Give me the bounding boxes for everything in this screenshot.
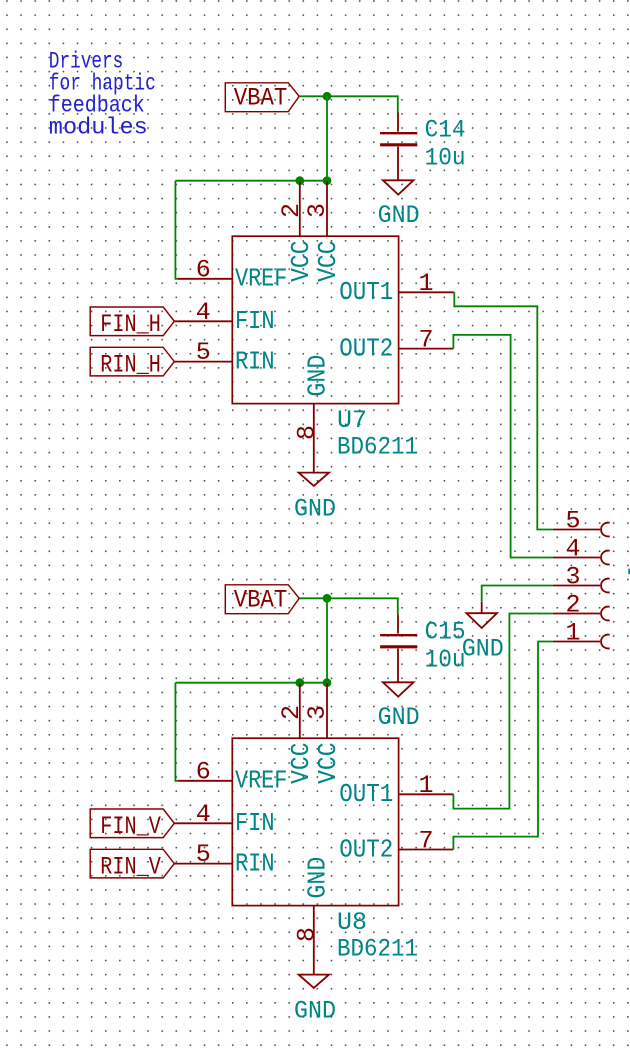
wire horizontal VCC feed row (top)	[175, 180, 327, 182]
svg-text:4: 4	[196, 800, 211, 829]
ground symbol below C15	[378, 682, 420, 732]
node junction pin2 feed (bottom)	[295, 678, 304, 687]
svg-text:U7: U7	[337, 406, 367, 435]
pin 6 VREF (bottom IC)	[178, 757, 287, 795]
connector pin 1	[553, 619, 610, 649]
capacitor C15	[380, 615, 466, 683]
svg-text:FIN: FIN	[235, 808, 275, 838]
svg-text:10u: 10u	[425, 645, 466, 674]
svg-text:OUT1: OUT1	[339, 779, 393, 809]
ground symbol for connector pin 3	[462, 602, 504, 664]
pin 3 VCC (bottom IC)	[303, 684, 343, 784]
svg-text:8: 8	[292, 425, 321, 440]
wire VBAT junction down to pin3 row (bottom)	[326, 598, 328, 682]
wire U8 OUT1 to connector pin 2	[453, 614, 553, 809]
svg-text:5: 5	[565, 507, 580, 536]
power label VBAT (top)	[225, 83, 299, 113]
node junction pin2 feed (top)	[295, 176, 304, 185]
svg-text:GND: GND	[303, 857, 333, 899]
pin 7 OUT2 (top IC)	[339, 325, 453, 363]
ground symbol below U7	[294, 473, 336, 524]
wire VBAT to C14	[299, 96, 398, 112]
svg-text:RIN: RIN	[235, 848, 275, 878]
wire U7 OUT1 to connector pin 5	[454, 292, 553, 529]
wire connector pin 3 to ground	[482, 586, 553, 602]
svg-text:C14: C14	[425, 116, 466, 145]
pin 4 FIN (top IC)	[174, 298, 274, 336]
connector pin 3	[553, 563, 610, 593]
svg-text:2: 2	[277, 203, 306, 218]
svg-text:FIN_V: FIN_V	[100, 812, 161, 841]
svg-text:3: 3	[303, 203, 332, 218]
svg-text:U8: U8	[337, 908, 367, 937]
wire VBAT junction down to pin3 row	[326, 96, 328, 180]
svg-text:3: 3	[303, 705, 332, 720]
svg-text:GND: GND	[294, 997, 336, 1026]
svg-text:2: 2	[565, 591, 580, 620]
connector pin 4	[553, 535, 610, 565]
svg-text:C15: C15	[425, 618, 466, 647]
svg-text:OUT1: OUT1	[339, 277, 393, 307]
svg-text:VREF: VREF	[235, 766, 287, 796]
pin 8 GND (bottom IC)	[292, 857, 332, 975]
svg-text:FIN_H: FIN_H	[100, 310, 161, 339]
ground symbol below C14	[378, 180, 420, 230]
hierarchical label RIN_H	[90, 347, 174, 379]
svg-text:RIN_V: RIN_V	[100, 852, 161, 881]
svg-text:VCC: VCC	[313, 241, 343, 282]
wire U7 OUT2 to connector pin 4	[453, 335, 553, 558]
wire VREF loop (bottom)	[175, 683, 178, 781]
note text "Drivers for haptic feedback modules"	[49, 49, 156, 142]
svg-text:5: 5	[196, 840, 211, 869]
svg-text:VCC: VCC	[286, 241, 316, 282]
svg-text:GND: GND	[462, 635, 504, 664]
svg-text:VBAT: VBAT	[234, 84, 287, 113]
svg-text:7: 7	[418, 826, 433, 855]
op-amp U8 BD6211 body	[232, 738, 418, 963]
wire horizontal VCC feed row (bottom)	[175, 682, 327, 684]
svg-text:3: 3	[565, 563, 580, 592]
svg-text:OUT2: OUT2	[339, 835, 393, 865]
hierarchical label FIN_V	[90, 809, 174, 841]
svg-text:GND: GND	[378, 703, 420, 732]
wire VBAT to C15	[299, 598, 398, 614]
pin 8 GND (top IC)	[292, 355, 332, 473]
svg-text:8: 8	[292, 927, 321, 942]
svg-text:FIN: FIN	[235, 306, 275, 336]
connector label fragment at right edge	[628, 569, 630, 575]
svg-text:OUT2: OUT2	[339, 334, 393, 364]
svg-text:RIN: RIN	[235, 346, 275, 376]
pin 5 RIN (bottom IC)	[174, 840, 274, 878]
pin 6 VREF (top IC)	[178, 255, 287, 293]
svg-text:BD6211: BD6211	[337, 432, 418, 461]
connector pin 5	[553, 507, 610, 537]
svg-text:GND: GND	[303, 355, 333, 397]
svg-text:6: 6	[196, 255, 211, 284]
svg-text:VCC: VCC	[286, 743, 316, 784]
node junction pin3 feed (top)	[323, 176, 332, 185]
node junction at VBAT (top)	[323, 92, 332, 101]
svg-text:4: 4	[196, 298, 211, 327]
node junction at VBAT (bottom)	[323, 594, 332, 603]
svg-text:GND: GND	[378, 201, 420, 230]
svg-text:1: 1	[565, 619, 580, 648]
pin 3 VCC (top IC)	[303, 182, 343, 282]
pin 1 OUT1 (top IC)	[339, 269, 454, 307]
hierarchical label FIN_H	[90, 307, 174, 339]
svg-text:RIN_H: RIN_H	[100, 350, 161, 379]
svg-text:1: 1	[418, 269, 433, 298]
power label VBAT (bottom)	[225, 585, 299, 615]
pin 7 OUT2 (bottom IC)	[339, 826, 453, 864]
svg-text:7: 7	[418, 325, 433, 354]
svg-text:VREF: VREF	[235, 264, 287, 294]
svg-text:1: 1	[418, 771, 433, 800]
svg-text:5: 5	[196, 338, 211, 367]
connector pin 2	[553, 591, 610, 621]
svg-text:modules: modules	[49, 115, 148, 142]
node junction pin3 feed (bottom)	[323, 678, 332, 687]
pin 4 FIN (bottom IC)	[174, 800, 274, 838]
svg-text:GND: GND	[294, 495, 336, 524]
pin 1 OUT1 (bottom IC)	[339, 771, 453, 809]
svg-text:10u: 10u	[425, 143, 466, 172]
ground symbol below U8	[294, 975, 336, 1026]
pin 2 VCC (bottom IC)	[277, 684, 316, 784]
capacitor C14	[380, 113, 466, 181]
svg-text:4: 4	[565, 535, 580, 564]
pin 5 RIN (top IC)	[174, 338, 274, 376]
op-amp U7 BD6211 body	[232, 236, 418, 461]
svg-text:VCC: VCC	[313, 743, 343, 784]
hierarchical label RIN_V	[90, 849, 174, 881]
svg-text:2: 2	[277, 705, 306, 720]
svg-text:VBAT: VBAT	[234, 586, 287, 615]
wire U8 OUT2 to connector pin 1	[453, 642, 553, 850]
wire VREF loop (top)	[175, 181, 178, 279]
svg-text:BD6211: BD6211	[337, 934, 418, 963]
svg-text:6: 6	[196, 757, 211, 786]
pin 2 VCC (top IC)	[277, 182, 316, 282]
